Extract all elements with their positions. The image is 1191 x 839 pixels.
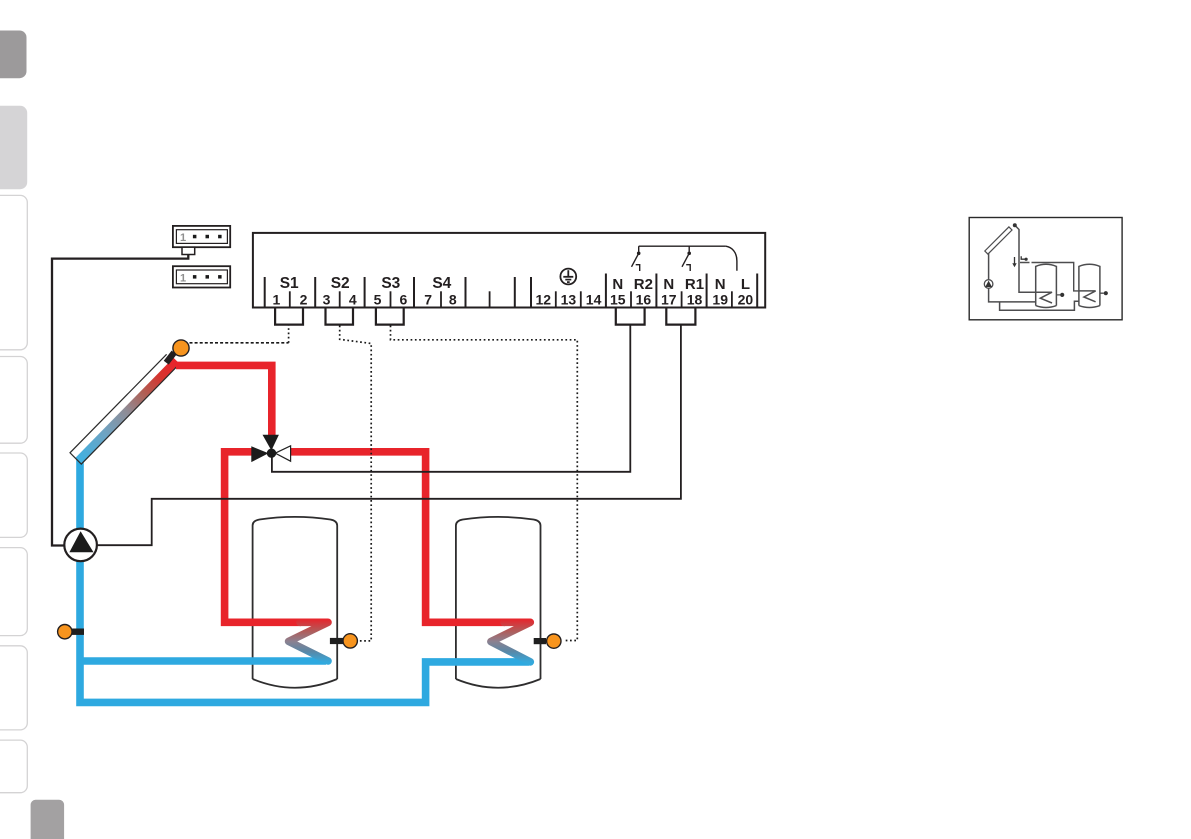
- svg-text:13: 13: [561, 291, 577, 307]
- svg-text:17: 17: [661, 291, 677, 307]
- collector sensor S1: [173, 340, 189, 356]
- red flow pipe from collector to valve: [176, 365, 272, 437]
- svg-text:12: 12: [536, 291, 552, 307]
- left margin outlined tab 1: [0, 195, 27, 349]
- return pipe sensor stub: [69, 629, 84, 635]
- return pipe sensor: [58, 625, 72, 639]
- relay bus line: [639, 245, 726, 247]
- svg-text:20: 20: [738, 291, 754, 307]
- tank2 sensor stub: [534, 638, 546, 644]
- heat exchanger coil tank1: [289, 622, 328, 661]
- svg-text:8: 8: [449, 291, 457, 307]
- solar collector gradient stripe: [79, 361, 177, 461]
- svg-text:14: 14: [586, 291, 602, 307]
- svg-text:N: N: [663, 276, 674, 293]
- bus connector plug 1: [173, 226, 230, 255]
- svg-text:S3: S3: [381, 275, 400, 292]
- mini flow line to tank2: [1020, 263, 1079, 291]
- earth symbol: [560, 269, 576, 285]
- svg-text:R2: R2: [634, 276, 653, 293]
- mini hook arrow: [1021, 256, 1025, 259]
- bottom-left gray page marker: [31, 800, 65, 839]
- svg-text:N: N: [715, 276, 726, 293]
- svg-text:R1: R1: [685, 276, 704, 293]
- tank1 sensor S2: [343, 634, 357, 648]
- mini tank 2: [1079, 264, 1100, 307]
- left margin outlined tab 5: [0, 646, 27, 730]
- svg-text:18: 18: [687, 291, 703, 307]
- mini sensor stubs: [1056, 293, 1103, 295]
- svg-text:S2: S2: [331, 275, 350, 292]
- mini pump: [984, 280, 993, 289]
- mini feed line + tank1 coil: [1015, 225, 1052, 303]
- terminal bracket S2: [326, 308, 354, 325]
- mini system schematic box: [969, 218, 1122, 320]
- left margin outlined tab 4: [0, 548, 27, 636]
- svg-text:2: 2: [300, 291, 308, 307]
- terminal bracket S3: [376, 308, 404, 325]
- svg-text:16: 16: [636, 291, 652, 307]
- collector sensor stub: [166, 353, 174, 363]
- svg-text:4: 4: [349, 291, 357, 307]
- storage tank 2: [456, 517, 541, 688]
- storage tank 1: [253, 517, 338, 688]
- dotted sensor lead S2 (tank1): [340, 326, 372, 641]
- mini collector: [985, 227, 1012, 254]
- dotted sensor lead S1 (collector): [190, 342, 289, 344]
- tank1 sensor stub: [330, 638, 343, 644]
- svg-text:1: 1: [273, 291, 281, 307]
- terminal numbers: [273, 291, 754, 307]
- mini flow arrow down: [1014, 257, 1016, 264]
- wire pump to terminals 17/18: [97, 324, 681, 545]
- 3-way valve: [251, 435, 290, 462]
- mini return piping: [989, 254, 1079, 311]
- terminal separators short: [290, 291, 732, 307]
- svg-text:19: 19: [712, 291, 728, 307]
- relay R2 contact: [632, 246, 640, 271]
- pump: [64, 529, 97, 562]
- left margin outlined tab 3: [0, 453, 27, 537]
- svg-text:15: 15: [610, 291, 626, 307]
- svg-text:N: N: [612, 276, 623, 293]
- terminal labels S1-S4: [280, 275, 452, 292]
- dotted sensor lead S3 (tank2): [391, 326, 578, 641]
- wire valve to terminals 15/16: [272, 324, 630, 472]
- bus connector plug 2: [173, 266, 230, 287]
- blue return pipe tank1: [80, 657, 326, 665]
- mini tank 1: [1036, 264, 1057, 307]
- svg-text:L: L: [741, 276, 750, 293]
- red flow pipe valve to tank2: [289, 452, 506, 623]
- left margin outlined tab 2: [0, 357, 27, 444]
- red flow pipe valve to tank1: [225, 452, 301, 623]
- svg-text:3: 3: [323, 291, 331, 307]
- mini tank sensor dots: [1060, 293, 1064, 297]
- svg-text:S1: S1: [280, 275, 299, 292]
- left margin tab dark: [0, 31, 27, 79]
- svg-text:6: 6: [400, 291, 408, 307]
- svg-text:1: 1: [180, 272, 186, 284]
- solar collector frame: [70, 354, 178, 464]
- relay L feed curve: [726, 246, 737, 271]
- mini collector sensor dot: [1013, 223, 1017, 227]
- terminal bracket 15/16: [616, 308, 645, 325]
- svg-text:1: 1: [180, 232, 186, 244]
- svg-text:5: 5: [374, 291, 382, 307]
- svg-text:S4: S4: [432, 275, 451, 292]
- left margin outlined tab 6: [0, 740, 27, 793]
- controller terminal box: [253, 233, 765, 308]
- terminal bracket S1: [275, 308, 303, 325]
- mini tank2 coil: [1079, 291, 1096, 302]
- tank2 sensor S3: [547, 634, 561, 648]
- terminal group separators tall: [265, 274, 758, 308]
- relay R1 contact: [682, 246, 690, 271]
- heat exchanger coil tank2: [491, 622, 530, 662]
- svg-text:7: 7: [424, 291, 432, 307]
- wire from bus connector to pump (left loop): [52, 255, 188, 546]
- terminal labels N R2 N R1 N L: [612, 276, 750, 293]
- terminal bracket 17/18: [666, 308, 695, 325]
- left margin tab light: [0, 106, 27, 189]
- blue return pipe main: [80, 459, 529, 702]
